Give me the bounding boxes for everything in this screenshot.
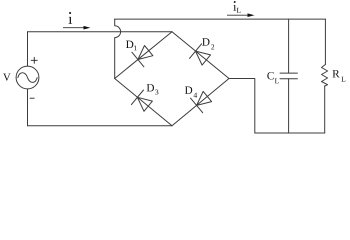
wire node R to right corner and down xyxy=(229,79,255,134)
label D4: 4 subscript xyxy=(194,93,197,98)
label V xyxy=(3,74,10,81)
label iL: i dot xyxy=(234,1,236,3)
wire bottom-right rail xyxy=(255,132,325,134)
source V1 sine wave xyxy=(18,73,37,83)
label RL: L subscript xyxy=(341,77,345,82)
diode D4 triangle xyxy=(197,91,212,105)
diode D2 cathode bar xyxy=(190,44,202,59)
label RL: R xyxy=(333,70,340,77)
label i (body) xyxy=(69,17,73,24)
label iL: i body xyxy=(233,5,236,11)
wire branch B-R xyxy=(172,79,229,126)
wire resistor bottom lead xyxy=(324,86,326,133)
wire resistor top lead xyxy=(324,19,326,64)
wire branch T-L xyxy=(115,32,172,79)
wire capacitor bottom lead xyxy=(288,79,290,133)
label CL: C xyxy=(267,72,273,80)
wire source top horizontal to node T xyxy=(28,31,173,33)
resistor RL zigzag xyxy=(322,65,328,87)
diode D1 triangle xyxy=(138,46,153,60)
capacitor CL top plate xyxy=(280,72,297,74)
diode D1 cathode bar xyxy=(132,52,144,67)
label D2: 2 subscript xyxy=(211,44,214,49)
plus sign of source xyxy=(31,57,37,63)
source V1 circle xyxy=(16,66,39,89)
label i (dot) xyxy=(69,12,71,14)
wire branch L-B xyxy=(115,79,172,126)
label D1: 1 subscript xyxy=(134,45,137,50)
current arrow i xyxy=(63,26,90,30)
capacitor CL bottom plate xyxy=(280,78,297,80)
label D3: D xyxy=(147,84,154,91)
wire bottom-left rail to node B xyxy=(28,125,173,127)
diode D3 cathode bar xyxy=(131,90,143,105)
minus sign of source xyxy=(30,97,34,99)
current arrow iL xyxy=(227,13,255,17)
wire source top vertical xyxy=(27,32,29,66)
label D4: D xyxy=(185,86,192,93)
label CL: L subscript xyxy=(275,78,279,83)
wire source bottom vertical xyxy=(27,89,29,126)
label D2: D xyxy=(202,38,209,45)
label iL: L subscript xyxy=(237,8,241,13)
diode D4 cathode bar xyxy=(191,98,203,113)
label D3: 3 subscript xyxy=(155,90,158,95)
diode D3 triangle xyxy=(137,97,152,111)
wire node L vertical with crossover hop xyxy=(115,19,121,78)
diode D2 triangle xyxy=(196,51,211,65)
label D1: D xyxy=(126,41,133,48)
wire top rail xyxy=(115,18,326,20)
wire capacitor top lead xyxy=(288,19,290,73)
wire branch T-R xyxy=(172,32,229,79)
